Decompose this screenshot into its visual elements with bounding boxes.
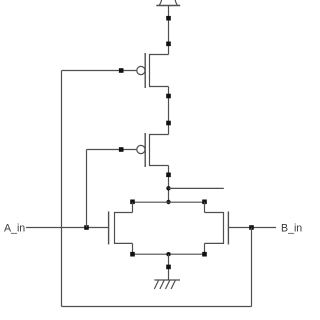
wire net A to M2 gate riser (86, 150, 88, 228)
pin square M2 drain (166, 173, 171, 178)
svg-text:B_in: B_in (281, 223, 302, 235)
wire nmos source rail (133, 253, 205, 255)
pin square M4 source (202, 252, 207, 257)
wire source rail to ground (168, 254, 170, 280)
wire net B loop left vertical (61, 71, 63, 307)
pmos M1 (137, 53, 169, 88)
wire nmos drain rail (133, 201, 205, 203)
pin square M2 source (166, 121, 171, 126)
pin square M4 drain (202, 200, 207, 205)
nmos M3 (109, 202, 133, 254)
pin square M3 source (130, 252, 135, 257)
wire net B input (228, 227, 276, 229)
wire net A input (26, 227, 109, 229)
wire M1 gate to net B (62, 70, 137, 72)
pin square M1 drain (166, 94, 171, 99)
junction dot output node (166, 186, 170, 190)
junction square on VDD net (166, 16, 171, 21)
junction dot source rail (166, 252, 170, 256)
pin square M1 source (166, 42, 171, 47)
wire VDD to M1 source (168, 6, 170, 55)
pin square M1 gate (119, 68, 124, 73)
pin square M2 gate (119, 147, 124, 152)
wire net B loop bottom (62, 306, 252, 308)
pmos M2 (137, 133, 169, 167)
nmos M4 (205, 202, 229, 254)
pin square M3 drain (130, 200, 135, 205)
svg-text:A_in: A_in (4, 223, 25, 235)
junction square net A (84, 225, 89, 230)
junction square net B (249, 225, 254, 230)
wire M1 drain to M2 source (168, 87, 170, 135)
ground (154, 280, 180, 289)
wire M2 drain to output node (168, 166, 170, 203)
wire net B loop right vertical (251, 228, 253, 307)
junction dot drain rail (166, 200, 170, 204)
wire M2 gate to net A (87, 149, 137, 151)
junction square ground wire (166, 265, 171, 270)
power symbol VDD (156, 0, 180, 6)
wire output stub (169, 187, 224, 189)
